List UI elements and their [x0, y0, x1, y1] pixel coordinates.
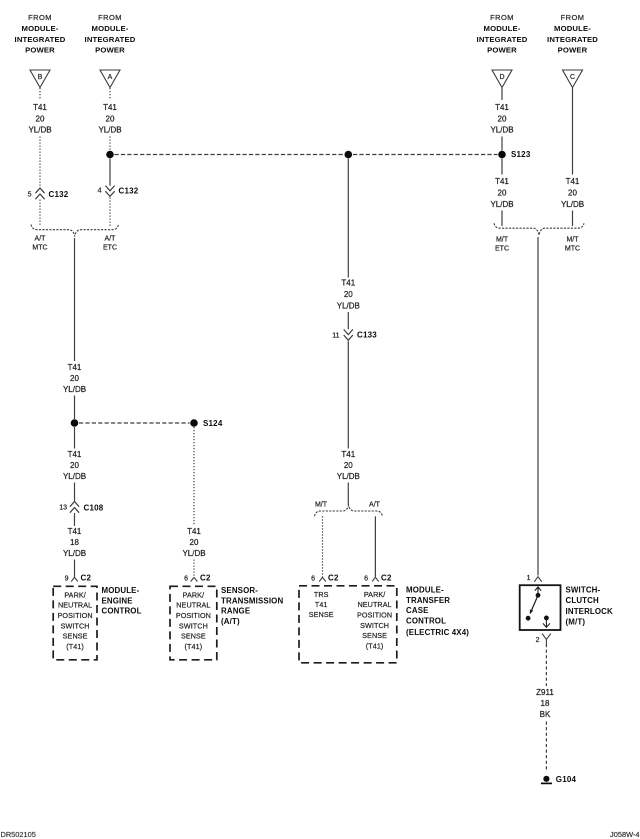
- switch contact dot common: [536, 593, 541, 598]
- wire B labels to C132: [39, 137, 41, 188]
- svg-text:20: 20: [344, 461, 353, 470]
- wire left labels to S124 dot: [74, 396, 76, 420]
- junction dot mid bus: [345, 151, 353, 159]
- svg-text:B: B: [38, 74, 43, 81]
- wire to pin 9: [74, 560, 76, 578]
- svg-text:MODULE-: MODULE-: [92, 24, 129, 33]
- wire A below triangle: [109, 88, 111, 100]
- svg-text:T41: T41: [68, 527, 82, 536]
- wire M/T branch: [322, 516, 324, 577]
- svg-text:20: 20: [190, 538, 199, 547]
- svg-text:11: 11: [332, 332, 339, 339]
- wire D labels to brace: [501, 211, 503, 227]
- svg-text:C108: C108: [84, 504, 104, 513]
- switch contact dot right: [544, 616, 549, 621]
- svg-text:6: 6: [311, 575, 315, 582]
- svg-text:18: 18: [70, 538, 79, 547]
- wire C labels to brace: [572, 211, 574, 227]
- svg-text:20: 20: [498, 115, 507, 124]
- svg-text:T41: T41: [566, 177, 580, 186]
- wire mid labels to C133: [347, 312, 349, 329]
- svg-text:1: 1: [527, 575, 531, 582]
- svg-text:20: 20: [568, 189, 577, 198]
- svg-text:POWER: POWER: [25, 46, 55, 55]
- svg-text:A/T: A/T: [369, 502, 381, 509]
- svg-text:T41: T41: [495, 103, 509, 112]
- svg-text:C133: C133: [357, 331, 377, 340]
- wire A C132 to brace: [109, 198, 111, 227]
- svg-text:6: 6: [364, 575, 368, 582]
- split brace M/T / A/T: [315, 505, 383, 516]
- svg-text:T41: T41: [33, 103, 47, 112]
- svg-text:T41: T41: [495, 177, 509, 186]
- off-page connector triangle C: [563, 70, 583, 88]
- switch terminal arrow up (pin1 side): [537, 587, 539, 595]
- svg-text:BK: BK: [540, 710, 551, 719]
- svg-text:YL/DB: YL/DB: [63, 385, 86, 394]
- wire A dot to C132: [109, 159, 111, 186]
- connector C2 pin 6 symbol (TRS sensor): [191, 577, 198, 581]
- brace grouping A/T MTC + A/T ETC: [31, 225, 119, 237]
- svg-text:FROM: FROM: [490, 13, 514, 22]
- svg-text:4: 4: [98, 188, 102, 195]
- svg-text:C2: C2: [81, 574, 92, 583]
- svg-text:ENGINE: ENGINE: [102, 596, 133, 605]
- wire A/T branch: [374, 516, 376, 577]
- svg-text:YL/DB: YL/DB: [182, 549, 205, 558]
- svg-text:MTC: MTC: [565, 245, 580, 252]
- svg-text:INTEGRATED: INTEGRATED: [477, 35, 528, 44]
- svg-text:Z911: Z911: [536, 688, 554, 697]
- switch terminal arrow down (pin2 side): [545, 620, 547, 628]
- wire left brace down: [74, 238, 76, 361]
- svg-text:T41: T41: [315, 600, 328, 609]
- svg-text:POWER: POWER: [487, 46, 517, 55]
- svg-text:20: 20: [70, 374, 79, 383]
- svg-text:NEUTRAL: NEUTRAL: [176, 601, 210, 610]
- svg-text:POWER: POWER: [95, 46, 125, 55]
- svg-text:CASE: CASE: [406, 606, 429, 615]
- svg-text:SENSE: SENSE: [181, 632, 206, 641]
- svg-text:S124: S124: [203, 419, 223, 428]
- svg-text:NEUTRAL: NEUTRAL: [58, 601, 92, 610]
- svg-text:13: 13: [59, 504, 67, 511]
- wire D below triangle: [501, 88, 503, 100]
- svg-text:18: 18: [541, 699, 550, 708]
- ground G104 symbol: [543, 776, 549, 782]
- svg-text:A: A: [108, 74, 113, 81]
- wire B C132 to brace: [39, 200, 41, 227]
- svg-text:20: 20: [70, 461, 79, 470]
- svg-text:POSITION: POSITION: [176, 611, 211, 620]
- connector C132 pin 4 symbol: [105, 186, 114, 191]
- svg-text:YL/DB: YL/DB: [561, 200, 584, 209]
- svg-text:YL/DB: YL/DB: [63, 549, 86, 558]
- svg-text:SENSE: SENSE: [63, 632, 88, 641]
- svg-text:SENSE: SENSE: [309, 610, 334, 619]
- svg-text:CLUTCH: CLUTCH: [566, 596, 599, 605]
- svg-text:POWER: POWER: [558, 46, 588, 55]
- wire C108 down: [74, 513, 76, 526]
- connector C133 pin 11 symbol: [344, 329, 353, 334]
- svg-text:TRS: TRS: [314, 590, 329, 599]
- svg-text:MODULE-: MODULE-: [22, 24, 59, 33]
- connector C132 pin 5 symbol: [35, 188, 44, 193]
- svg-text:M/T: M/T: [496, 236, 509, 243]
- svg-text:M/T: M/T: [566, 236, 579, 243]
- svg-text:(M/T): (M/T): [566, 618, 586, 627]
- wire D S123 down: [501, 159, 503, 175]
- svg-text:NEUTRAL: NEUTRAL: [357, 600, 391, 609]
- svg-text:T41: T41: [68, 450, 82, 459]
- svg-text:C: C: [570, 74, 575, 81]
- svg-text:C2: C2: [328, 574, 339, 583]
- svg-text:POSITION: POSITION: [58, 611, 93, 620]
- svg-text:G104: G104: [556, 775, 577, 784]
- svg-text:T41: T41: [341, 279, 355, 288]
- svg-text:DR502105: DR502105: [1, 830, 36, 839]
- svg-text:MTC: MTC: [32, 244, 47, 251]
- svg-text:TRANSFER: TRANSFER: [406, 596, 450, 605]
- wire mid junction down: [347, 159, 349, 278]
- junction dot left at S124 line: [71, 419, 79, 427]
- svg-text:ETC: ETC: [495, 245, 509, 252]
- switch blade: [532, 595, 538, 610]
- svg-text:MODULE-: MODULE-: [484, 24, 521, 33]
- svg-text:T41: T41: [103, 103, 117, 112]
- wire right brace to switch pin 1: [537, 237, 539, 576]
- svg-text:C132: C132: [119, 187, 139, 196]
- svg-text:MODULE-: MODULE-: [406, 585, 444, 594]
- svg-text:YL/DB: YL/DB: [98, 126, 121, 135]
- svg-text:YL/DB: YL/DB: [28, 126, 51, 135]
- svg-text:YL/DB: YL/DB: [63, 472, 86, 481]
- svg-text:(T41): (T41): [185, 642, 203, 651]
- svg-text:J058W-4: J058W-4: [610, 830, 639, 839]
- svg-text:S123: S123: [511, 150, 531, 159]
- svg-text:FROM: FROM: [28, 13, 52, 22]
- off-page connector triangle A: [100, 70, 120, 88]
- svg-text:2: 2: [536, 637, 540, 644]
- svg-text:INTEGRATED: INTEGRATED: [15, 35, 66, 44]
- wire to ground: [545, 722, 547, 773]
- wire D labels to S123: [501, 137, 503, 151]
- switch-clutch interlock box: [520, 585, 561, 630]
- svg-text:FROM: FROM: [561, 13, 585, 22]
- svg-text:SWITCH: SWITCH: [360, 621, 389, 630]
- svg-text:POSITION: POSITION: [357, 611, 392, 620]
- svg-text:C2: C2: [200, 574, 211, 583]
- svg-text:CONTROL: CONTROL: [406, 617, 446, 626]
- wire C133 down: [347, 341, 349, 448]
- svg-text:20: 20: [36, 115, 45, 124]
- svg-text:SWITCH-: SWITCH-: [566, 586, 601, 595]
- svg-text:C2: C2: [381, 574, 392, 583]
- svg-text:PARK/: PARK/: [183, 590, 205, 599]
- svg-text:5: 5: [28, 192, 32, 199]
- connector C108 pin 13 symbol: [70, 502, 79, 507]
- svg-text:(ELECTRIC 4X4): (ELECTRIC 4X4): [406, 628, 469, 637]
- svg-text:INTERLOCK: INTERLOCK: [566, 607, 614, 616]
- sensor-transmission range box (dashed): [170, 586, 217, 660]
- connector C2 pin 6 symbol (PNP xfer): [372, 577, 379, 581]
- svg-text:PARK/: PARK/: [64, 590, 86, 599]
- svg-text:TRANSMISSION: TRANSMISSION: [221, 596, 283, 605]
- module-transfer case control box (dashed): [299, 586, 397, 663]
- wire C below triangle: [572, 88, 574, 175]
- svg-text:20: 20: [498, 189, 507, 198]
- wire left dot down: [74, 427, 76, 449]
- svg-text:INTEGRATED: INTEGRATED: [85, 35, 136, 44]
- svg-text:SWITCH: SWITCH: [61, 621, 90, 630]
- svg-text:M/T: M/T: [315, 502, 328, 509]
- svg-text:SENSOR-: SENSOR-: [221, 586, 258, 595]
- bus wire A-dot to mid junction: [115, 154, 344, 156]
- off-page connector triangle B: [30, 70, 50, 88]
- svg-text:(T41): (T41): [366, 641, 384, 650]
- wire to pin 6 (TRS sensor): [193, 560, 195, 578]
- wire mid labels to split brace: [347, 483, 349, 506]
- brace grouping M/T ETC + M/T MTC: [494, 223, 584, 235]
- svg-text:C132: C132: [49, 190, 69, 199]
- off-page connector triangle D: [492, 70, 512, 88]
- svg-text:A/T: A/T: [105, 235, 117, 242]
- wire left labels to C108: [74, 483, 76, 502]
- splice S124 dot: [190, 419, 198, 427]
- svg-text:T41: T41: [341, 450, 355, 459]
- svg-text:(T41): (T41): [66, 642, 84, 651]
- junction dot at A column bus: [106, 151, 114, 159]
- svg-text:SENSE: SENSE: [362, 631, 387, 640]
- svg-text:A/T: A/T: [35, 235, 47, 242]
- wire A labels to splice dot: [109, 137, 111, 151]
- connector C2 pin 9 symbol: [71, 577, 78, 581]
- bus wire mid junction to S123: [353, 154, 498, 156]
- svg-text:SWITCH: SWITCH: [179, 621, 208, 630]
- svg-text:ETC: ETC: [103, 244, 117, 251]
- svg-text:6: 6: [184, 575, 188, 582]
- connector caret at pin 1: [534, 577, 542, 582]
- svg-text:20: 20: [106, 115, 115, 124]
- switch contact dot left: [526, 616, 531, 621]
- svg-text:PARK/: PARK/: [364, 590, 386, 599]
- svg-text:MODULE-: MODULE-: [554, 24, 591, 33]
- connector C2 pin 6 symbol (TRS): [319, 577, 326, 581]
- svg-text:YL/DB: YL/DB: [337, 472, 360, 481]
- svg-text:9: 9: [65, 575, 69, 582]
- svg-text:MODULE-: MODULE-: [102, 586, 140, 595]
- svg-text:T41: T41: [187, 527, 201, 536]
- splice S123 dot: [498, 151, 506, 159]
- svg-text:INTEGRATED: INTEGRATED: [547, 35, 598, 44]
- svg-text:RANGE: RANGE: [221, 607, 250, 616]
- connector Y at pin 2: [542, 634, 551, 644]
- module-engine control box (dashed): [53, 586, 97, 660]
- svg-text:YL/DB: YL/DB: [490, 200, 513, 209]
- svg-text:D: D: [499, 74, 504, 81]
- svg-text:(A/T): (A/T): [221, 617, 240, 626]
- svg-text:T41: T41: [68, 363, 82, 372]
- svg-text:CONTROL: CONTROL: [102, 607, 142, 616]
- wire B below triangle: [39, 88, 41, 100]
- wire S124 horizontal: [79, 422, 190, 424]
- svg-text:FROM: FROM: [98, 13, 122, 22]
- wire S124 down: [193, 427, 195, 526]
- svg-text:YL/DB: YL/DB: [337, 302, 360, 311]
- svg-text:YL/DB: YL/DB: [490, 126, 513, 135]
- wire pin 2 down: [545, 644, 547, 686]
- svg-text:20: 20: [344, 290, 353, 299]
